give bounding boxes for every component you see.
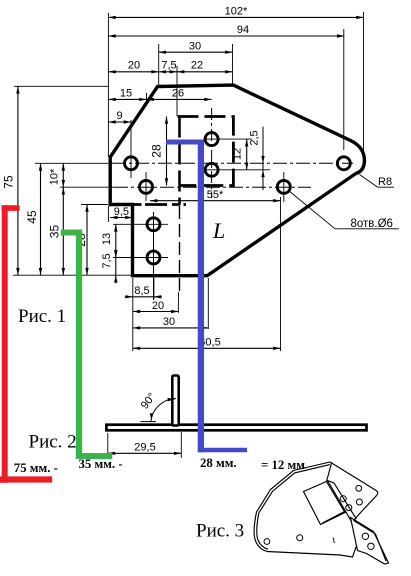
dimension 26	[147, 98, 212, 100]
dimension 20	[133, 311, 179, 313]
svg-text:9,5: 9,5	[114, 206, 129, 218]
svg-text:94: 94	[237, 24, 249, 36]
dimension 2,5	[262, 127, 264, 190]
dimension 12	[246, 139, 248, 170]
svg-text:28: 28	[150, 144, 164, 158]
crosshair hole7 vertical	[283, 172, 285, 202]
3d inner edge line	[257, 465, 330, 550]
dimension 94	[108, 35, 344, 37]
3d hole c	[340, 496, 346, 502]
crosshair hole1 vertical	[130, 120, 132, 178]
crosshair hole2 vertical	[145, 172, 147, 201]
svg-text:ι: ι	[331, 534, 337, 546]
center line flange holes vertical	[211, 108, 213, 198]
hole 5 tab top	[147, 218, 160, 231]
svg-text:26: 26	[172, 88, 184, 100]
hole 7 middle	[277, 180, 290, 193]
svg-text:90°: 90°	[139, 391, 159, 412]
dimension 28	[166, 117, 168, 186]
dimension 13	[115, 224, 117, 257]
svg-text:102*: 102*	[225, 6, 248, 18]
svg-text:10*: 10*	[49, 168, 61, 185]
dimension 9	[108, 121, 131, 123]
svg-text:8,5: 8,5	[134, 285, 149, 297]
flange hidden outline (dashed)	[178, 117, 234, 186]
3d hole e	[362, 533, 368, 539]
3d hole d	[346, 505, 352, 511]
extension line x177 bend	[176, 66, 178, 116]
dimension 45	[40, 163, 42, 275]
center line horizontal upper	[35, 162, 112, 164]
svg-text:7,5: 7,5	[101, 253, 113, 268]
extension line x154 below tab	[153, 278, 155, 299]
extension line x208.3 below	[207, 278, 209, 329]
dimension 55*	[150, 200, 281, 202]
extension flange hole row1 right	[204, 138, 253, 140]
dimension 102*	[108, 16, 363, 18]
svg-text:30: 30	[189, 41, 201, 53]
dimension 60,5	[133, 347, 281, 349]
dimension 7,5	[115, 258, 117, 276]
svg-text:L: L	[212, 218, 225, 243]
svg-text:22: 22	[191, 60, 203, 72]
svg-text:12: 12	[232, 148, 244, 160]
red highlight line (75 mm)	[2, 205, 20, 211]
svg-text:55*: 55*	[207, 189, 224, 201]
svg-text:20: 20	[152, 300, 164, 312]
svg-text:Рис. 2: Рис. 2	[29, 432, 77, 453]
extension line y204.5 left	[81, 204, 108, 206]
svg-text:Рис. 1: Рис. 1	[18, 306, 66, 327]
extension line y275.2 bottom	[13, 274, 133, 276]
dimension 22	[177, 71, 233, 73]
svg-text:R8: R8	[378, 176, 392, 188]
dimension 15	[108, 98, 146, 100]
hole 2	[140, 180, 153, 193]
dimension 29,5	[107, 433, 109, 458]
svg-text:2,5: 2,5	[248, 130, 260, 145]
dimension 20	[108, 71, 158, 73]
side view bar	[106, 425, 366, 431]
center line tab holes vertical	[153, 212, 155, 300]
extension line x344 hole8 col	[343, 29, 345, 150]
3d hole h	[297, 535, 303, 541]
svg-text:13: 13	[101, 233, 113, 245]
svg-text:9: 9	[116, 110, 122, 122]
dimension 8,5	[133, 296, 154, 298]
extension line x158.7	[158, 44, 160, 86]
angle reference line	[141, 421, 157, 423]
dimension 10*	[62, 163, 64, 187]
bend line horizontal at tab (dashed thick)	[134, 203, 187, 206]
bend line vertical lower (dashed)	[179, 206, 181, 291]
side view tab	[172, 376, 178, 426]
dimension 28	[86, 205, 88, 276]
svg-text:28 мм.: 28 мм.	[200, 456, 237, 470]
svg-text:75 мм. -: 75 мм. -	[14, 461, 58, 475]
svg-text:7,5: 7,5	[161, 60, 176, 72]
extension flange hole row2 right	[204, 169, 271, 171]
svg-text:8отв.Ø6: 8отв.Ø6	[351, 218, 393, 230]
green highlight line (35 mm)	[61, 230, 79, 236]
hole 4 flange bottom	[205, 163, 218, 176]
bend line vertical upper (dashed thick)	[178, 117, 181, 206]
svg-text:75: 75	[2, 175, 16, 189]
3d hole f	[368, 543, 374, 549]
hole 1	[125, 157, 138, 170]
3d hole b	[356, 499, 362, 505]
extension line y86.3 left	[14, 85, 108, 87]
extension line x178.4 below	[177, 292, 179, 313]
3d hole g	[264, 539, 270, 545]
extension line x146.5 hole2 col	[146, 93, 148, 105]
dimension 9,5	[110, 217, 132, 219]
crosshair tab hole lower horizontal	[113, 257, 168, 259]
label R8	[360, 175, 378, 188]
extension line x132.8 below tab	[132, 278, 134, 351]
3d hole a	[356, 485, 362, 491]
3d upper wing	[328, 481, 357, 522]
svg-text:30: 30	[163, 316, 175, 328]
svg-text:35: 35	[48, 225, 62, 239]
3d main plate outline	[254, 462, 378, 557]
label 8otv	[289, 191, 336, 229]
svg-text:29,5: 29,5	[134, 441, 155, 453]
hole 6 tab bottom	[147, 251, 160, 264]
dimension 75	[17, 86, 19, 275]
center line horizontal lower	[60, 186, 114, 188]
blue highlight line (28 mm)	[166, 139, 201, 144]
plate outline	[110, 85, 364, 276]
extension line x110.3 below	[107, 206, 109, 222]
extension line x280 right	[280, 197, 282, 351]
hole 8 tip	[337, 157, 350, 170]
extension line x232.5	[232, 44, 234, 85]
hole 3 flange top	[205, 133, 218, 146]
crosshair tab hole upper horizontal	[113, 223, 168, 225]
extension line x363.5 tip	[363, 12, 365, 157]
dimension 30	[133, 327, 209, 329]
dimension 7,5 top	[159, 71, 177, 73]
dimension 35	[62, 187, 64, 275]
3d flange	[304, 482, 346, 525]
dimension 30	[159, 51, 233, 53]
3d lower wing	[351, 518, 389, 565]
svg-text:20: 20	[128, 60, 140, 72]
svg-text:Рис. 3: Рис. 3	[196, 520, 244, 541]
svg-text:45: 45	[25, 210, 39, 224]
extension line left edge top	[107, 13, 109, 157]
svg-text:15: 15	[120, 88, 132, 100]
angle arc 90	[151, 399, 176, 422]
